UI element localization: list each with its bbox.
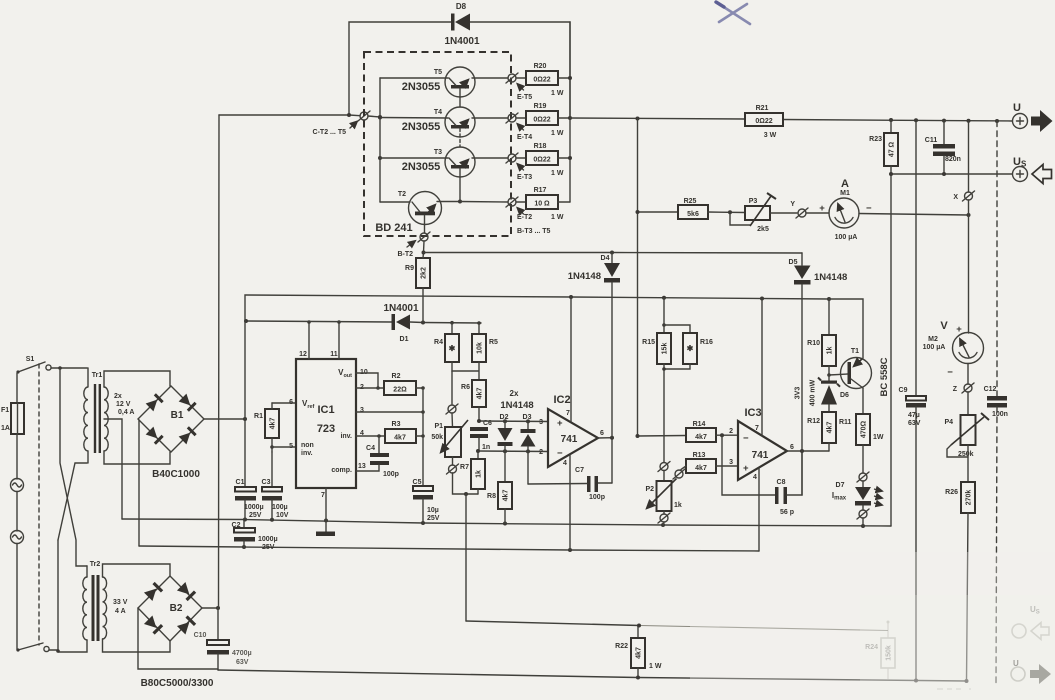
node pin3 wire — [477, 419, 548, 423]
svg-text:+: + — [557, 418, 563, 429]
main raw rail to collectors — [218, 115, 221, 608]
diode D2 1N4148 — [498, 414, 513, 451]
resistor R1 — [254, 403, 279, 452]
wire row T3 — [380, 157, 508, 159]
svg-text:1A: 1A — [1, 425, 10, 432]
svg-text:723: 723 — [317, 423, 335, 435]
svg-text:D4: D4 — [601, 255, 610, 262]
svg-text:12: 12 — [299, 351, 307, 358]
connector E-T2 — [506, 197, 551, 235]
svg-text:4k7: 4k7 — [503, 490, 510, 502]
resistor R26 — [945, 445, 975, 681]
svg-text:comp.: comp. — [331, 467, 352, 474]
svg-text:3: 3 — [360, 407, 364, 414]
resistor R5 — [472, 323, 498, 362]
AC source upper — [11, 479, 24, 492]
svg-text:100µ: 100µ — [272, 504, 288, 511]
svg-text:F1: F1 — [1, 407, 9, 414]
resistor R15 — [642, 298, 671, 364]
svg-text:R17: R17 — [534, 187, 547, 194]
svg-text:13: 13 — [358, 463, 366, 470]
svg-text:P1: P1 — [434, 423, 443, 430]
wire — [103, 639, 171, 652]
node collector rail — [219, 113, 360, 117]
connector Y — [770, 201, 808, 218]
svg-text:0Ω22: 0Ω22 — [533, 157, 550, 164]
resistor R6 — [461, 380, 486, 421]
wire pin7 ground — [325, 488, 327, 533]
svg-text:1000µ: 1000µ — [244, 504, 264, 511]
wire mid column — [422, 388, 424, 486]
capacitor C7 — [528, 467, 612, 501]
wire IC3 pin4 — [758, 468, 760, 551]
potentiometer P1 — [431, 413, 468, 457]
svg-text:E-T3: E-T3 — [517, 174, 532, 181]
capacitor C1 — [235, 419, 264, 519]
svg-text:B-T2: B-T2 — [397, 251, 413, 258]
capacitor C11 — [925, 121, 961, 174]
svg-text:1 W: 1 W — [551, 170, 564, 177]
svg-text:T3: T3 — [434, 149, 442, 156]
svg-text:10 Ω: 10 Ω — [534, 201, 550, 208]
node 0V rail — [122, 518, 891, 529]
resistor R18 — [516, 143, 570, 177]
svg-text:R5: R5 — [489, 339, 498, 346]
diode D3 1N4148 — [500, 389, 535, 451]
svg-text:C2: C2 — [232, 522, 241, 529]
transformer Tr2 — [83, 561, 128, 641]
wire into box — [368, 115, 382, 119]
connector P1 top — [446, 371, 458, 414]
svg-text:5k6: 5k6 — [687, 211, 699, 218]
svg-text:100p: 100p — [383, 471, 399, 478]
svg-text:10k: 10k — [477, 342, 484, 354]
wire — [86, 566, 88, 577]
svg-text:−: − — [557, 448, 563, 459]
svg-text:1N4001: 1N4001 — [444, 36, 479, 47]
svg-text:C4: C4 — [366, 445, 375, 452]
svg-text:A: A — [841, 178, 849, 190]
wire pin12 — [307, 320, 311, 359]
svg-text:R14: R14 — [693, 421, 706, 428]
svg-text:✱: ✱ — [687, 344, 694, 353]
capacitor C9 — [899, 120, 926, 680]
wire R22 drop — [465, 494, 467, 621]
svg-text:11: 11 — [330, 351, 338, 358]
svg-text:5: 5 — [289, 443, 293, 450]
svg-text:R13: R13 — [693, 452, 706, 459]
svg-text:T5: T5 — [434, 69, 442, 76]
node raw supply wire — [569, 295, 831, 301]
capacitor C2 — [232, 520, 278, 551]
svg-text:C12: C12 — [984, 386, 997, 393]
svg-text:R7: R7 — [460, 464, 469, 471]
svg-text:D3: D3 — [523, 414, 532, 421]
wire IC3 output — [787, 449, 829, 453]
switch S1 — [16, 356, 51, 374]
wire base chain T3-node — [459, 169, 461, 202]
svg-text:C3: C3 — [262, 479, 271, 486]
svg-text:T1: T1 — [851, 348, 859, 355]
resistor R17 — [516, 187, 570, 221]
svg-text:63V: 63V — [908, 420, 921, 427]
svg-text:47µ: 47µ — [908, 412, 920, 419]
transistor T2 BD241 — [375, 191, 441, 234]
svg-text:R2: R2 — [392, 373, 401, 380]
resistor R9 — [405, 258, 430, 288]
svg-text:R6: R6 — [461, 384, 470, 391]
node bottom rail — [218, 670, 969, 683]
regulator IC1 723 — [289, 351, 368, 499]
wire B1 minus — [138, 420, 140, 546]
wire — [16, 434, 18, 479]
wire pin6 — [272, 402, 296, 404]
connector D7 bottom — [857, 509, 869, 526]
svg-text:inv.: inv. — [340, 433, 352, 440]
svg-text:0,4 A: 0,4 A — [118, 409, 134, 416]
svg-text:25V: 25V — [427, 515, 440, 522]
wire IC2 pin4 — [569, 455, 571, 551]
svg-text:15k: 15k — [662, 343, 669, 355]
svg-text:D6: D6 — [840, 392, 849, 399]
resistor R13 — [681, 452, 738, 473]
svg-text:25V: 25V — [249, 512, 262, 519]
svg-text:C5: C5 — [413, 479, 422, 486]
svg-text:1W: 1W — [873, 434, 884, 441]
wire — [16, 544, 18, 651]
switch S1 lower pole — [16, 643, 49, 652]
svg-text:D7: D7 — [836, 482, 845, 489]
node pin2 wire — [476, 449, 548, 453]
svg-text:R1: R1 — [254, 413, 263, 420]
svg-text:6: 6 — [600, 430, 604, 437]
svg-text:M1: M1 — [840, 190, 850, 197]
svg-text:P4: P4 — [944, 419, 953, 426]
svg-text:1N4001: 1N4001 — [383, 303, 418, 314]
connector E-T3 — [506, 153, 532, 181]
resistor R10 — [807, 299, 836, 377]
fuse F1 — [1, 403, 24, 434]
scan fade overlay — [690, 552, 1055, 700]
resistor R20 — [516, 63, 570, 97]
wire — [16, 492, 18, 532]
transistor T1 BC558C — [829, 299, 890, 397]
svg-text:R18: R18 — [534, 143, 547, 150]
wire raw supply riser — [245, 295, 571, 419]
svg-text:741: 741 — [561, 434, 578, 445]
wire center tap — [104, 419, 122, 519]
svg-text:R22: R22 — [615, 643, 628, 650]
diode D4 1N4148 — [568, 253, 620, 438]
svg-text:1n: 1n — [482, 444, 490, 451]
svg-text:2: 2 — [729, 428, 733, 435]
svg-text:4 A: 4 A — [115, 608, 126, 615]
svg-text:2N3055: 2N3055 — [402, 81, 441, 93]
svg-text:4700µ: 4700µ — [232, 650, 252, 657]
svg-text:2N3055: 2N3055 — [402, 121, 441, 133]
svg-text:2x: 2x — [510, 389, 519, 398]
svg-text:IC2: IC2 — [553, 394, 570, 406]
svg-text:Y: Y — [790, 201, 795, 208]
diode D1 1N4001 — [383, 303, 423, 343]
svg-text:E-T2: E-T2 — [517, 214, 532, 221]
svg-text:1N4148: 1N4148 — [500, 400, 533, 411]
dashed enclosure box — [364, 52, 511, 236]
wire pin3 — [356, 410, 425, 414]
svg-text:50k: 50k — [431, 434, 443, 441]
node drive wire — [424, 251, 803, 255]
svg-text:400 mW: 400 mW — [810, 379, 817, 406]
svg-text:R10: R10 — [807, 340, 820, 347]
resistor R4 — [434, 323, 459, 362]
wire — [16, 373, 18, 403]
svg-text:−: − — [866, 203, 872, 214]
capacitor C5 — [413, 479, 440, 523]
wire — [103, 564, 171, 577]
svg-text:4: 4 — [563, 460, 567, 467]
svg-text:Vout: Vout — [338, 368, 352, 379]
capacitor C4 — [356, 436, 399, 478]
svg-text:X: X — [953, 194, 958, 201]
svg-text:P3: P3 — [749, 198, 758, 205]
svg-text:56 p: 56 p — [780, 509, 794, 516]
resistor R16 — [664, 325, 713, 364]
svg-text:R15: R15 — [642, 339, 655, 346]
svg-text:3 W: 3 W — [764, 132, 777, 139]
wire IC3 pin7 — [761, 299, 763, 437]
terminal U minus faint — [1011, 659, 1051, 684]
svg-text:R11: R11 — [839, 419, 852, 426]
resistor R21 — [745, 105, 783, 139]
connector P2 wiper — [673, 469, 685, 479]
svg-text:−: − — [947, 367, 953, 378]
svg-text:R26: R26 — [945, 489, 958, 496]
svg-text:R20: R20 — [534, 63, 547, 70]
connector B-T2 — [397, 232, 430, 258]
connector E-T5 — [506, 73, 532, 101]
svg-text:IC1: IC1 — [317, 404, 334, 416]
svg-text:C10: C10 — [194, 632, 207, 639]
svg-text:1N4148: 1N4148 — [814, 272, 847, 283]
resistor R11 — [839, 388, 884, 473]
svg-text:✱: ✱ — [449, 344, 456, 353]
node output rail — [570, 117, 1012, 124]
svg-text:Tr1: Tr1 — [92, 372, 103, 379]
svg-text:E-T5: E-T5 — [517, 94, 532, 101]
connector C-T2..T5 — [313, 111, 370, 136]
svg-text:B1: B1 — [171, 410, 184, 421]
op-amp IC3 741 — [729, 407, 794, 481]
svg-text:470Ω: 470Ω — [861, 420, 868, 438]
svg-text:US: US — [1013, 156, 1027, 169]
svg-text:R8: R8 — [487, 493, 496, 500]
svg-text:M2: M2 — [928, 336, 938, 343]
resistor R24 faint — [865, 621, 895, 680]
svg-text:BD 241: BD 241 — [375, 222, 412, 234]
node Us sense wire — [889, 172, 1012, 176]
terminal U plus — [1013, 102, 1053, 132]
svg-text:D2: D2 — [500, 414, 509, 421]
meter M2 voltmeter — [923, 200, 984, 378]
wire R4/R5 join — [452, 362, 479, 380]
svg-text:P2: P2 — [645, 486, 654, 493]
potentiometer P2 — [645, 471, 681, 512]
svg-text:T2: T2 — [398, 191, 406, 198]
svg-text:B40C1000: B40C1000 — [152, 469, 200, 480]
meter M1 ammeter — [806, 178, 872, 241]
wire pin5 — [272, 446, 296, 448]
svg-text:250k: 250k — [958, 451, 974, 458]
svg-text:non: non — [301, 442, 314, 449]
svg-text:+: + — [819, 203, 825, 214]
svg-text:820n: 820n — [945, 156, 961, 163]
svg-text:2x: 2x — [114, 393, 122, 400]
LED D7 Imax — [832, 481, 882, 510]
wire T2 collector — [380, 201, 410, 203]
bridge rectifier B2 — [138, 576, 214, 689]
svg-text:6: 6 — [790, 444, 794, 451]
svg-text:33 V: 33 V — [113, 599, 128, 606]
svg-text:R4: R4 — [434, 339, 443, 346]
svg-text:C8: C8 — [777, 479, 786, 486]
wire base chain T5-T4 — [459, 89, 461, 108]
svg-text:B80C5000/3300: B80C5000/3300 — [141, 678, 214, 689]
resistor R2 — [356, 373, 425, 395]
svg-text:2k2: 2k2 — [421, 267, 428, 279]
svg-text:7: 7 — [755, 425, 759, 432]
wire current-set link — [466, 621, 888, 631]
AC source lower — [11, 531, 24, 544]
wire row T4 — [378, 116, 508, 120]
connector X — [953, 121, 974, 201]
svg-text:4k7: 4k7 — [695, 434, 707, 441]
svg-text:1 W: 1 W — [551, 214, 564, 221]
svg-text:12 V: 12 V — [116, 401, 131, 408]
wire — [104, 371, 170, 387]
wire B2 minus — [138, 608, 218, 669]
wire IC2 output — [598, 436, 614, 483]
wire wiper node — [453, 473, 479, 496]
svg-text:1N4148: 1N4148 — [568, 271, 601, 282]
svg-text:D8: D8 — [456, 2, 467, 11]
connector P2 bottom — [658, 511, 670, 525]
svg-text:100 µA: 100 µA — [835, 234, 858, 241]
wire — [104, 451, 170, 464]
svg-text:U: U — [1013, 102, 1021, 114]
svg-text:0Ω22: 0Ω22 — [755, 118, 772, 125]
svg-text:R9: R9 — [405, 265, 414, 272]
svg-text:2: 2 — [539, 449, 543, 456]
svg-text:BC 558C: BC 558C — [879, 357, 890, 396]
resistor R8 — [487, 451, 512, 523]
resistor R23 — [869, 120, 898, 526]
svg-text:47 Ω: 47 Ω — [889, 141, 896, 157]
svg-text:1 W: 1 W — [551, 90, 564, 97]
wire ammeter tap — [636, 210, 679, 214]
svg-text:100 µA: 100 µA — [923, 344, 946, 351]
svg-text:3: 3 — [729, 459, 733, 466]
capacitor C6 — [470, 420, 492, 451]
svg-text:4k7: 4k7 — [394, 435, 406, 442]
connector E-T4 — [506, 113, 532, 141]
transformer Tr1 — [84, 368, 135, 463]
svg-text:Vref: Vref — [302, 399, 315, 410]
svg-text:−: − — [743, 433, 749, 444]
potentiometer P4 — [944, 392, 989, 458]
svg-text:D5: D5 — [789, 259, 798, 266]
svg-text:2N3055: 2N3055 — [402, 161, 441, 173]
svg-text:R19: R19 — [534, 103, 547, 110]
svg-text:4k7: 4k7 — [636, 647, 643, 659]
ground — [316, 532, 335, 537]
svg-text:inv.: inv. — [301, 450, 313, 457]
wire T2 emitter row — [437, 200, 508, 204]
terminal Us minus faint — [1012, 605, 1049, 640]
svg-text:741: 741 — [752, 450, 769, 461]
capacitor C10 — [194, 608, 252, 670]
connector D7 top — [857, 472, 869, 482]
wire base chain T4-T3 dashed — [459, 129, 461, 148]
wire base column — [422, 241, 426, 323]
svg-text:R16: R16 — [700, 339, 713, 346]
capacitor C12 dashed line — [984, 121, 1008, 685]
svg-text:+: + — [743, 463, 749, 474]
svg-text:Imax: Imax — [832, 491, 847, 502]
svg-text:63V: 63V — [236, 659, 249, 666]
terminal Us — [1013, 156, 1052, 184]
resistor R7 — [460, 451, 485, 494]
resistor R12 — [807, 412, 836, 451]
svg-text:IC3: IC3 — [744, 407, 761, 419]
svg-text:Z: Z — [953, 386, 958, 393]
capacitor C8 — [722, 435, 802, 516]
svg-text:T4: T4 — [434, 109, 442, 116]
diode D8 1N4001 — [444, 2, 479, 47]
svg-text:22Ω: 22Ω — [393, 387, 407, 394]
transistor T5 2N3055 — [402, 67, 475, 97]
wire B2 plus — [202, 606, 220, 610]
svg-text:E-T4: E-T4 — [517, 134, 532, 141]
resistor R14 — [636, 421, 739, 442]
svg-text:3: 3 — [539, 419, 543, 426]
svg-text:10V: 10V — [276, 512, 289, 519]
transistor T3 2N3055 — [402, 147, 475, 177]
svg-text:100p: 100p — [589, 494, 605, 501]
svg-text:4k7: 4k7 — [477, 388, 484, 400]
svg-text:R25: R25 — [684, 198, 697, 205]
svg-text:Tr2: Tr2 — [90, 561, 101, 568]
svg-text:6: 6 — [289, 399, 293, 406]
svg-text:1 W: 1 W — [649, 663, 662, 670]
svg-text:1k: 1k — [827, 347, 834, 355]
svg-text:C9: C9 — [899, 387, 908, 394]
wire meter to column — [859, 213, 971, 217]
blue cross mark — [716, 2, 750, 24]
svg-text:0Ω22: 0Ω22 — [533, 77, 550, 84]
zener D6 3V3 — [795, 375, 850, 412]
svg-text:25V: 25V — [262, 544, 275, 551]
resistor R3 — [356, 421, 425, 443]
svg-text:10µ: 10µ — [427, 507, 439, 514]
wire C7 to pin2 — [527, 451, 529, 484]
svg-text:R3: R3 — [392, 421, 401, 428]
wire B1 plus — [204, 417, 247, 421]
bridge rectifier B1 — [138, 386, 204, 480]
resistor R19 — [516, 103, 570, 137]
svg-text:1 W: 1 W — [551, 130, 564, 137]
wire crossed primaries — [58, 368, 87, 566]
faint marks — [937, 688, 971, 690]
